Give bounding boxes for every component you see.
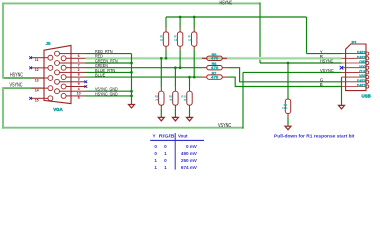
svg-text:490 mV: 490 mV — [181, 151, 198, 156]
svg-text:4: 4 — [78, 87, 80, 91]
svg-text:VGA: VGA — [53, 107, 63, 112]
svg-text:2: 2 — [78, 68, 80, 72]
svg-text:470: 470 — [211, 75, 218, 79]
svg-text:HSYNC: HSYNC — [10, 73, 23, 79]
svg-text:VSYNC: VSYNC — [218, 123, 231, 129]
svg-text:11: 11 — [35, 58, 39, 62]
svg-text:75: 75 — [169, 98, 173, 102]
svg-text:75: 75 — [183, 98, 187, 102]
svg-text:1: 1 — [154, 165, 157, 170]
svg-text:8: 8 — [78, 73, 80, 77]
svg-text:6: 6 — [78, 54, 80, 58]
svg-text:Pull-down for R1 response star: Pull-down for R1 response start bit — [274, 134, 355, 139]
svg-text:250 mV: 250 mV — [181, 158, 198, 163]
svg-text:USB: USB — [362, 94, 371, 99]
svg-text:10: 10 — [77, 92, 81, 96]
svg-text:HSYNC: HSYNC — [320, 59, 334, 65]
svg-text:B: B — [320, 82, 323, 87]
svg-text:1: 1 — [164, 151, 167, 156]
svg-text:0: 0 — [154, 144, 157, 149]
svg-text:0 mV: 0 mV — [186, 144, 198, 149]
svg-text:R: R — [320, 54, 323, 59]
svg-text:7: 7 — [78, 63, 80, 67]
svg-text:Vout: Vout — [178, 134, 188, 139]
svg-text:12: 12 — [35, 68, 39, 72]
svg-text:J5: J5 — [46, 41, 52, 46]
svg-text:10K: 10K — [282, 106, 288, 110]
svg-text:1: 1 — [164, 165, 167, 170]
svg-text:BLUE: BLUE — [95, 73, 105, 78]
svg-text:1: 1 — [154, 158, 157, 163]
svg-text:0: 0 — [164, 144, 167, 149]
svg-text:470: 470 — [211, 66, 218, 70]
svg-text:VSYNC: VSYNC — [10, 83, 23, 89]
svg-text:0: 0 — [154, 151, 157, 156]
svg-text:DAT1: DAT1 — [357, 83, 366, 88]
svg-text:Y: Y — [153, 134, 156, 139]
svg-text:HSYNC: HSYNC — [220, 0, 233, 6]
svg-text:VSYNC: VSYNC — [320, 68, 334, 74]
svg-text:75: 75 — [155, 98, 159, 102]
svg-text:13: 13 — [35, 78, 39, 82]
svg-text:HSYNC_GND: HSYNC_GND — [95, 91, 118, 96]
svg-text:5: 5 — [78, 96, 80, 100]
svg-text:14: 14 — [35, 88, 39, 92]
svg-text:674 mV: 674 mV — [181, 165, 198, 170]
svg-text:R/G/B: R/G/B — [159, 134, 175, 139]
svg-text:470: 470 — [211, 57, 218, 61]
svg-text:0: 0 — [164, 158, 167, 163]
svg-text:P1: P1 — [352, 40, 358, 45]
svg-text:1: 1 — [78, 59, 80, 63]
svg-text:15: 15 — [35, 99, 39, 103]
svg-text:3: 3 — [78, 77, 80, 81]
svg-text:9: 9 — [78, 82, 80, 86]
